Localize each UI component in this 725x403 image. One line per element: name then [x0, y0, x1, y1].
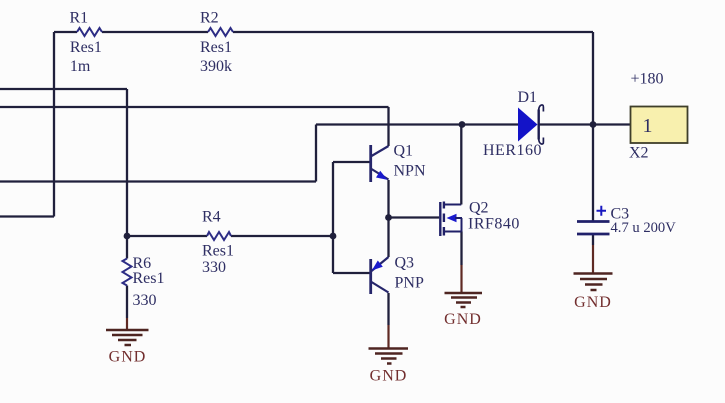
- svg-text:+180: +180: [631, 71, 664, 88]
- resistor R2: [200, 9, 233, 75]
- svg-text:390k: 390k: [200, 58, 232, 75]
- wire Q1 collector drop x=388.5: [387, 107, 389, 146]
- svg-text:Res1: Res1: [200, 39, 232, 56]
- svg-text:330: 330: [202, 259, 226, 276]
- wire base bus x=333: [332, 162, 334, 273]
- wire top rail y=32: [54, 31, 593, 33]
- wire right riser x=593: [592, 32, 594, 221]
- node emitter/gate junction: [385, 214, 392, 221]
- wire bottom-left stub y=216.5: [0, 215, 54, 217]
- svg-text:IRF840: IRF840: [468, 216, 520, 233]
- svg-text:R1: R1: [70, 9, 89, 26]
- node R4/base junction: [330, 233, 337, 240]
- svg-text:R2: R2: [200, 9, 219, 26]
- wire mid rail y=124.5: [316, 123, 631, 125]
- mosfet Q2: [440, 125, 520, 237]
- ground under C3: [574, 245, 613, 311]
- svg-text:GND: GND: [370, 368, 408, 385]
- svg-text:PNP: PNP: [395, 275, 424, 292]
- node R4/R6 junction: [124, 233, 131, 240]
- wire riser x=127: [126, 89, 128, 236]
- wire left riser x=54: [53, 32, 55, 217]
- transistor Q3: [371, 255, 424, 294]
- wire Q3 collector lead: [387, 293, 389, 325]
- connector X2: [629, 107, 688, 162]
- wire Q1 base y=162: [333, 161, 370, 163]
- svg-text:GND: GND: [444, 311, 482, 328]
- svg-text:Q2: Q2: [469, 200, 489, 217]
- svg-text:4.7 u 200V: 4.7 u 200V: [611, 220, 677, 236]
- wire input 1 y=89: [0, 88, 127, 90]
- svg-text:GND: GND: [109, 349, 147, 366]
- node drain/diode junction: [459, 121, 466, 128]
- ground under Q3: [369, 325, 409, 385]
- resistor R6: [123, 255, 165, 309]
- svg-text:1m: 1m: [70, 58, 91, 75]
- ground under R6: [106, 318, 149, 366]
- svg-text:1: 1: [643, 115, 653, 137]
- wire R6 bottom lead: [126, 286, 128, 319]
- wire input 2 y=107: [0, 106, 389, 108]
- wire C3 bottom lead: [592, 235, 594, 245]
- svg-text:NPN: NPN: [394, 163, 426, 180]
- resistor R1: [70, 9, 103, 75]
- svg-text:D1: D1: [518, 89, 538, 106]
- wire R6 top lead: [126, 236, 128, 259]
- wire Q3 emitter lead: [387, 218, 389, 258]
- wire R4 row y=236: [127, 235, 333, 237]
- resistor R4: [202, 209, 234, 276]
- transistor Q1: [371, 143, 426, 182]
- node diode/cap junction: [590, 121, 597, 128]
- wire input 3 y=181.5: [0, 180, 316, 182]
- wire Q2 source lead: [460, 232, 462, 266]
- svg-text:330: 330: [133, 292, 157, 309]
- wire riser x=316: [315, 125, 317, 182]
- svg-text:Q3: Q3: [395, 255, 415, 272]
- svg-text:HER160: HER160: [483, 142, 542, 159]
- svg-text:Res1: Res1: [70, 39, 102, 56]
- svg-text:Q1: Q1: [394, 143, 414, 160]
- svg-text:GND: GND: [574, 294, 612, 311]
- svg-text:X2: X2: [629, 145, 649, 162]
- wire emitter node x=388.5: [387, 180, 389, 218]
- wire Q2 gate y=217.5: [389, 216, 440, 218]
- ground under Q2: [444, 265, 482, 328]
- diode D1: [483, 89, 543, 159]
- svg-text:Res1: Res1: [202, 243, 234, 260]
- capacitor C3: [577, 206, 676, 236]
- svg-text:R4: R4: [202, 209, 221, 226]
- wire Q3 base y=273: [333, 272, 370, 274]
- svg-text:Res1: Res1: [133, 270, 165, 287]
